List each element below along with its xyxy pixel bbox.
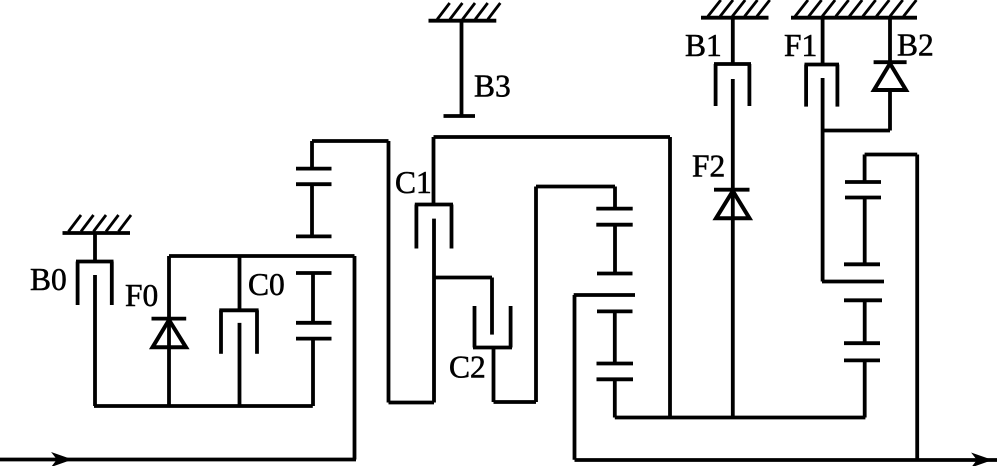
wire input shaft right wall xyxy=(353,256,357,460)
gear element upper right of box xyxy=(296,273,332,323)
wire output line xyxy=(575,458,997,462)
svg-text:F0: F0 xyxy=(125,278,158,313)
one-way clutch F2 xyxy=(714,190,750,219)
gear element lower right of box xyxy=(296,323,332,406)
gear element second of middle stack xyxy=(596,225,632,274)
clutch C2 xyxy=(473,278,512,403)
wire bottom U to C1 xyxy=(389,401,435,405)
wire ground stem to B0 xyxy=(93,233,97,262)
clutch C1 xyxy=(415,137,453,403)
svg-text:C2: C2 xyxy=(449,350,486,385)
svg-text:F2: F2 xyxy=(692,149,725,184)
wire top of left gear stack xyxy=(312,139,389,143)
ground for B3 xyxy=(429,3,501,21)
svg-text:F1: F1 xyxy=(784,28,817,63)
gear carrier bar middle stack xyxy=(574,295,635,460)
wire top rail drop to lower rail xyxy=(668,137,672,418)
svg-text:B2: B2 xyxy=(897,28,934,63)
gear element top of middle stack xyxy=(596,187,632,209)
wire bottom U C2 to middle stack xyxy=(494,400,537,404)
wire C1 shaft to C2 xyxy=(434,276,492,280)
ground for B1 xyxy=(701,0,770,18)
one-way clutch F0 xyxy=(152,256,187,406)
wire vertical ring connection xyxy=(387,141,391,403)
svg-text:C1: C1 xyxy=(395,165,432,200)
wire box top xyxy=(169,254,355,258)
output arrowhead xyxy=(973,454,992,466)
one-way clutch F1 xyxy=(805,18,840,282)
gear element third of right stack xyxy=(844,300,882,343)
brake B1 xyxy=(714,18,751,418)
gear element lower left stack xyxy=(296,184,332,236)
wire middle stack top rail xyxy=(536,185,615,189)
svg-text:B1: B1 xyxy=(685,28,722,63)
wire U joining F1 and B2 xyxy=(823,129,891,133)
ground for B0 xyxy=(63,215,132,233)
wire lower rail xyxy=(615,416,866,420)
wire right stack top rail xyxy=(865,155,918,461)
input arrowhead xyxy=(53,453,72,466)
clutch C0 xyxy=(219,256,258,406)
gear element bottom of right stack xyxy=(844,360,880,417)
brake B2 xyxy=(874,18,907,131)
gear element second of right stack xyxy=(844,198,881,265)
brake B3 xyxy=(444,21,476,117)
brake B0 xyxy=(76,262,114,407)
svg-text:C0: C0 xyxy=(248,267,285,302)
svg-text:B3: B3 xyxy=(474,69,511,104)
gear carrier bar right stack xyxy=(822,280,884,284)
gear element third of middle stack xyxy=(597,311,633,363)
svg-text:B0: B0 xyxy=(30,262,67,297)
wire box bottom xyxy=(94,404,313,408)
wire input line xyxy=(0,458,356,462)
gear element top of right stack xyxy=(845,180,881,184)
gear element sun upper left stack xyxy=(296,141,332,169)
wire vertical to middle stack rail xyxy=(534,187,538,403)
wire top rail C1 to right xyxy=(434,135,671,139)
ground for F1 and B2 xyxy=(791,0,917,18)
gear element bottom of middle stack xyxy=(597,364,634,418)
